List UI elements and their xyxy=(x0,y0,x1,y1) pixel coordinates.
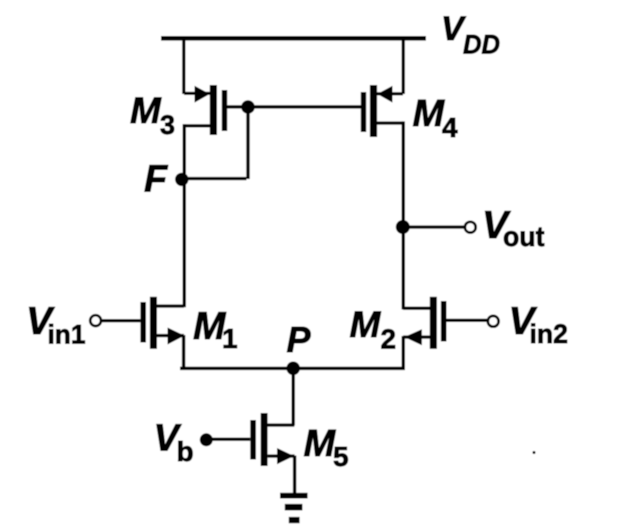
svg-text:5: 5 xyxy=(333,441,349,472)
svg-text:M: M xyxy=(413,93,446,135)
svg-text:P: P xyxy=(287,319,312,360)
svg-text:1: 1 xyxy=(222,323,238,354)
svg-text:M: M xyxy=(130,90,162,131)
svg-text:F: F xyxy=(144,159,169,201)
svg-text:M: M xyxy=(304,423,337,465)
svg-text:4: 4 xyxy=(442,112,458,143)
svg-text:b: b xyxy=(177,436,194,467)
svg-text:2: 2 xyxy=(381,323,397,354)
svg-text:out: out xyxy=(503,221,545,252)
svg-text:DD: DD xyxy=(463,30,500,60)
svg-text:3: 3 xyxy=(160,110,175,140)
svg-text:in2: in2 xyxy=(530,319,569,349)
svg-text:in1: in1 xyxy=(48,319,86,349)
svg-text:M: M xyxy=(350,304,382,345)
